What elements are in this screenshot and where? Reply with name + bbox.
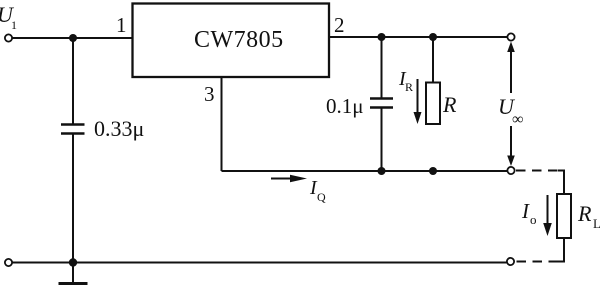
wire input to regulator pin 1 — [12, 37, 132, 39]
resistor RL — [557, 194, 571, 238]
svg-text:1: 1 — [11, 18, 17, 32]
wire middle rail — [222, 170, 508, 172]
ground — [59, 263, 88, 284]
svg-text:∞: ∞ — [512, 111, 523, 128]
svg-text:Q: Q — [317, 190, 326, 204]
label Io — [521, 199, 537, 227]
svg-text:R: R — [405, 80, 413, 94]
svg-text:2: 2 — [334, 13, 345, 37]
wire bottom rail — [12, 262, 507, 264]
svg-text:0.33μ: 0.33μ — [94, 116, 144, 141]
current arrow IR — [414, 79, 422, 124]
terminal output middle — [507, 167, 514, 174]
svg-text:3: 3 — [204, 82, 215, 106]
svg-text:CW7805: CW7805 — [194, 27, 284, 53]
label Uoo — [496, 93, 531, 128]
junction node C2 bottom — [378, 167, 386, 175]
regulator U1 CW7805 — [133, 4, 330, 78]
svg-text:o: o — [530, 212, 537, 227]
dashed wire middle to load — [516, 170, 558, 172]
wire capacitor C1 to bottom rail — [72, 134, 74, 263]
capacitor C1 0.33u — [61, 125, 85, 134]
resistor R — [426, 83, 440, 125]
dashed wire load to bottom terminal — [516, 261, 558, 263]
wire top rail to resistor R — [432, 37, 434, 83]
svg-text:R: R — [442, 92, 457, 117]
label RL — [577, 201, 600, 231]
wire pin 3 down — [221, 77, 223, 171]
label IQ — [309, 177, 326, 204]
current arrow IQ — [271, 175, 307, 183]
current arrow Io — [543, 195, 552, 236]
capacitor C2 0.1u — [370, 99, 393, 108]
svg-text:R: R — [577, 201, 592, 226]
wire junction down to capacitor C1 — [72, 38, 74, 124]
svg-text:L: L — [593, 216, 600, 231]
wire load resistor to bottom corner — [558, 238, 564, 262]
svg-text:1: 1 — [116, 13, 127, 37]
junction node R top — [429, 33, 437, 41]
junction input node — [69, 34, 77, 42]
junction ground node — [69, 258, 77, 266]
voltage arrow Uoo — [507, 42, 515, 167]
svg-text:I: I — [521, 199, 530, 223]
label IR — [398, 68, 413, 94]
wire capacitor C2 to middle rail — [381, 108, 383, 172]
terminal bottom left — [5, 259, 12, 266]
terminal input — [5, 34, 12, 41]
wire pin 2 to output terminal — [329, 36, 508, 38]
junction node R bottom — [429, 167, 437, 175]
junction node C2 top — [378, 33, 386, 41]
terminal bottom right — [507, 258, 514, 265]
label U1 — [0, 2, 17, 32]
terminal output top — [507, 33, 514, 40]
wire corner to load resistor — [558, 171, 564, 195]
svg-text:0.1μ: 0.1μ — [326, 94, 364, 118]
wire top rail to capacitor C2 — [381, 37, 383, 98]
